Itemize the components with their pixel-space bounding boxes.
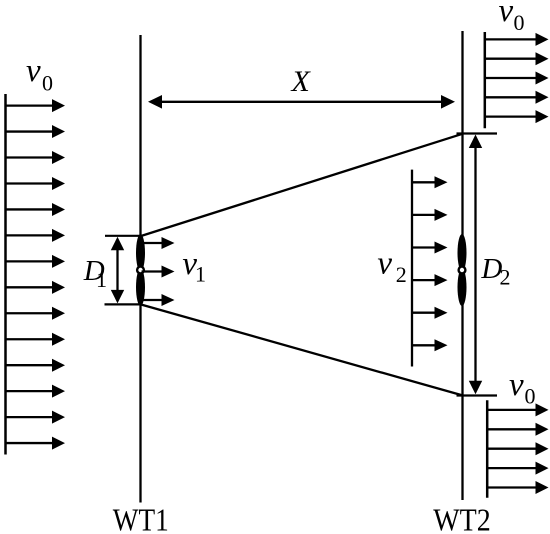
svg-text:v: v [499,0,514,29]
svg-text:0: 0 [525,384,536,409]
svg-text:1: 1 [96,267,107,292]
svg-text:2: 2 [500,265,511,290]
svg-text:v: v [509,367,524,403]
svg-text:WT1: WT1 [113,502,169,534]
svg-text:0: 0 [514,10,525,35]
svg-text:X: X [291,65,312,98]
svg-text:1: 1 [195,261,206,286]
svg-text:v: v [377,246,392,282]
svg-text:WT2: WT2 [433,502,491,534]
svg-text:2: 2 [396,262,407,287]
svg-text:0: 0 [42,71,53,96]
svg-text:v: v [26,53,41,89]
